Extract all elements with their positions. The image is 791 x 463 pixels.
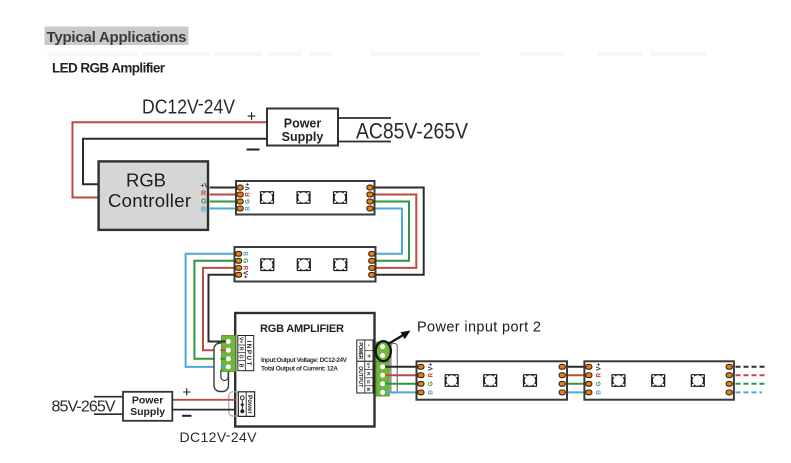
svg-text:Power: Power — [132, 395, 164, 407]
Power port label box — [238, 392, 254, 417]
power supply U1 box — [267, 109, 338, 146]
svg-text:RGB AMPLIFIER: RGB AMPLIFIER — [260, 323, 344, 335]
svg-text:B: B — [365, 388, 371, 392]
wire blue controller to strip1 — [210, 208, 239, 210]
wire green amplifier to strip3 — [383, 383, 419, 385]
wire red: power supply 1 to RGB controller — [73, 122, 268, 197]
POWER label box — [357, 340, 373, 361]
svg-text:Typical Applications: Typical Applications — [47, 29, 187, 46]
svg-text:Total Output of Current: 12A: Total Output of Current: 12A — [261, 366, 338, 373]
svg-text:G: G — [242, 258, 249, 263]
AC lead top — [338, 117, 391, 119]
svg-text:B: B — [238, 364, 244, 368]
power supply U2 box — [123, 392, 172, 421]
loop wire blue strip1 to strip2 — [373, 209, 402, 254]
svg-text:85V-265V: 85V-265V — [52, 399, 116, 416]
LED strip 1 — [236, 181, 375, 215]
svg-text:Input:Output Voltage: DC12-24V: Input:Output Voltage: DC12-24V — [261, 357, 348, 364]
svg-text:Supply: Supply — [130, 406, 165, 418]
svg-text:Controller: Controller — [108, 190, 191, 211]
wire black strip2 to amplifier input — [209, 275, 238, 342]
wire blue amplifier to strip3 — [383, 391, 419, 393]
svg-text:RGB: RGB — [126, 169, 166, 190]
dashed wire blue continuation — [736, 391, 763, 393]
svg-text:OUTPUT: OUTPUT — [357, 366, 363, 387]
LED strip 2 (flipped) — [235, 247, 376, 282]
svg-text:V+: V+ — [365, 362, 371, 368]
svg-text:R: R — [595, 372, 602, 377]
power supply 2 lead top — [94, 396, 123, 398]
svg-text:DC12V-24V: DC12V-24V — [180, 427, 258, 445]
wire red power supply 2 to amplifier — [172, 399, 235, 401]
wire green controller to strip1 — [210, 201, 239, 203]
svg-text:B: B — [201, 207, 206, 214]
input green terminal — [222, 336, 236, 372]
input clip inner tab — [221, 368, 228, 381]
dashed wire green continuation — [736, 383, 767, 385]
wire black amplifier to strip3 — [383, 366, 419, 368]
power green terminal (port 2) — [376, 342, 389, 362]
loop wire green strip1 to strip2 — [373, 202, 409, 261]
wire red strip2 to amplifier input — [203, 268, 237, 350]
wire green strip2 to amplifier input — [194, 261, 237, 359]
svg-text:V+: V+ — [595, 363, 602, 371]
INPUT label box — [238, 336, 254, 371]
arrow to power input port 2 — [388, 331, 411, 345]
loop wire black strip1 to strip2 — [373, 188, 424, 275]
wire red controller to strip1 — [210, 194, 239, 196]
power terminal holes — [380, 344, 385, 358]
svg-text:DC12V-24V: DC12V-24V — [142, 93, 236, 118]
wire black controller to strip1 — [210, 187, 239, 189]
svg-text:INPUT: INPUT — [245, 341, 252, 366]
input clip outline — [214, 343, 229, 392]
svg-text:V+: V+ — [427, 363, 434, 371]
wire red strip3 seg1 to seg2 — [565, 374, 586, 376]
LED strip 3 segment 2 — [584, 361, 734, 399]
svg-text:R: R — [365, 372, 371, 376]
svg-text:-: - — [365, 344, 372, 346]
ghost text smudge row — [47, 52, 706, 57]
svg-text:V+: V+ — [242, 271, 249, 279]
svg-text:V+: V+ — [245, 182, 252, 190]
wire green strip3 seg1 to seg2 — [565, 383, 586, 385]
wire red amplifier to strip3 — [383, 374, 419, 376]
svg-text:B: B — [595, 390, 602, 395]
svg-text:G: G — [427, 381, 434, 386]
svg-text:+: + — [182, 384, 191, 401]
svg-text:G: G — [201, 199, 207, 206]
power supply 2 lead bottom — [94, 413, 123, 415]
wire black power supply 2 to amplifier — [172, 409, 235, 411]
AC lead bottom — [338, 141, 391, 143]
loop wire red strip1 to strip2 — [373, 195, 416, 268]
svg-text:B: B — [242, 252, 249, 257]
svg-text:G: G — [365, 380, 371, 384]
dashed wire red continuation — [736, 374, 767, 376]
wire blue strip2 to amplifier input — [186, 254, 237, 367]
dashed wire black continuation — [736, 366, 766, 368]
svg-text:Supply: Supply — [282, 130, 324, 144]
wire black: power supply 1 to RGB controller — [83, 139, 267, 185]
svg-text:G: G — [595, 381, 602, 386]
RGB amplifier box — [235, 313, 374, 427]
svg-text:G: G — [238, 354, 244, 358]
svg-text:+V: +V — [201, 183, 210, 190]
svg-text:Power: Power — [246, 395, 253, 415]
svg-text:Power: Power — [284, 117, 322, 131]
input terminal holes — [226, 339, 231, 369]
svg-text:POWER: POWER — [357, 342, 363, 359]
RGB controller box — [99, 161, 208, 230]
LED strip 3 segment 1 — [417, 361, 568, 399]
terminal side profile plate — [391, 344, 397, 394]
svg-text:R: R — [201, 191, 206, 198]
svg-text:B: B — [245, 206, 252, 211]
wire blue strip3 seg1 to seg2 — [565, 391, 586, 393]
output terminal holes — [380, 364, 385, 395]
svg-text:G: G — [245, 199, 252, 204]
svg-text:LED RGB Amplifier: LED RGB Amplifier — [52, 61, 166, 76]
OUTPUT label box — [357, 361, 373, 393]
svg-text:AC85V-265V: AC85V-265V — [356, 119, 468, 144]
highlight ellipse power input port 2 — [376, 341, 391, 361]
svg-text:Power input port 2: Power input port 2 — [417, 320, 541, 336]
output green terminal — [376, 362, 389, 397]
title: Typical Applications — [45, 27, 189, 46]
wire stubs over input terminal — [221, 342, 229, 367]
svg-text:R: R — [427, 372, 434, 377]
minus sign (top power supply) — [247, 149, 260, 151]
wire black strip3 seg1 to seg2 — [565, 366, 586, 368]
svg-text:+: + — [365, 354, 372, 358]
minus sign (bottom power supply) — [182, 415, 192, 417]
svg-text:R: R — [245, 192, 252, 197]
power jack barrel outline — [229, 392, 240, 416]
svg-text:V+: V+ — [238, 337, 244, 344]
svg-text:B: B — [427, 390, 434, 395]
svg-text:R: R — [238, 347, 244, 351]
